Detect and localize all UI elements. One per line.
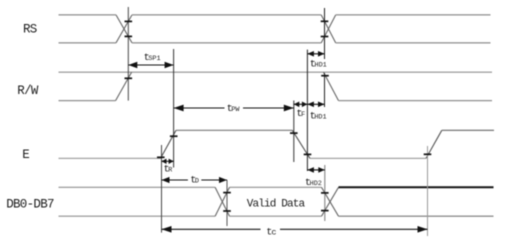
RS crossover 1 rising diagonal [116, 15, 132, 43]
tick RS crossover 2 lower [321, 36, 329, 38]
wire DB low rail left [59, 215, 216, 217]
svg-text:DB0-DB7: DB0-DB7 [6, 197, 54, 211]
arrow tHD1 lower [307, 102, 324, 108]
vertical reference line V5 [324, 8, 326, 107]
vertical reference line V3 [293, 101, 295, 163]
arrow tC [162, 226, 428, 233]
arrow tSP1 [128, 62, 173, 68]
tick R/W rising edge [125, 77, 133, 79]
arrow tF [294, 102, 308, 108]
tick DB crossover 2 upper [321, 192, 329, 194]
R/W rising edge diagonal [116, 72, 132, 100]
E rising edge diagonal [161, 130, 177, 158]
E second rising edge diagonal [426, 130, 442, 158]
vertical reference line V1 [127, 7, 129, 101]
wire DB low rail valid section [230, 215, 322, 217]
wire DB high rail left [59, 186, 216, 188]
wire E high rail right [442, 129, 494, 131]
DB crossover 2 falling diagonal [322, 187, 339, 216]
wire R/W high rail full [59, 71, 493, 73]
svg-text:tHD2: tHD2 [305, 178, 322, 189]
wire DB high rail valid section [230, 186, 322, 188]
arrow tD [162, 177, 228, 183]
svg-text:tD: tD [190, 175, 199, 186]
wire R/W low rail right [339, 100, 493, 102]
vertical reference line V7 [427, 146, 429, 236]
wire RS low rail right [336, 42, 491, 44]
RS crossover 1 falling diagonal [116, 15, 132, 43]
svg-text:tSP1: tSP1 [144, 53, 161, 64]
RS crossover 2 falling diagonal [321, 15, 336, 43]
arrow tHD1 upper [307, 51, 324, 57]
RS crossover 2 rising diagonal [321, 15, 336, 43]
tick E second rising at V7 [424, 153, 432, 155]
svg-text:RS: RS [23, 23, 37, 37]
wire RS high rail middle [132, 14, 321, 16]
tick E rising at V2 [170, 135, 178, 137]
DB crossover 1 rising diagonal [215, 187, 229, 216]
vertical reference line VT [161, 145, 163, 233]
wire RS high rail left [59, 14, 117, 16]
arrow tHD2 [307, 167, 324, 173]
wire E low rail left [59, 157, 161, 159]
E falling edge diagonal [292, 130, 310, 158]
svg-text:R/W: R/W [17, 84, 39, 98]
arrow tR [162, 159, 174, 164]
tick DB crossover 1 lower [223, 210, 231, 212]
svg-text:Valid Data: Valid Data [247, 199, 306, 211]
wire RS low rail middle [132, 42, 321, 44]
tick RS crossover 2 upper [321, 20, 329, 22]
svg-text:tHD1: tHD1 [310, 60, 327, 71]
svg-text:tF: tF [296, 109, 305, 120]
wire DB high rail right bold [339, 186, 494, 188]
R/W falling edge diagonal [324, 72, 339, 100]
tick E rising corner [157, 156, 165, 158]
vertical reference line V2 [173, 49, 175, 168]
vertical reference line V4 [306, 50, 308, 171]
wire RS high rail right [336, 14, 491, 16]
tick E falling at V3 [290, 132, 298, 134]
DB crossover 2 rising diagonal [322, 187, 339, 216]
tick RS crossover 1 lower [125, 35, 133, 37]
tick DB crossover 1 upper [223, 192, 231, 194]
wire E high rail [176, 129, 292, 131]
vertical reference line VD1 [226, 180, 228, 226]
svg-text:tHD1: tHD1 [310, 112, 327, 123]
wire E low rail middle [310, 157, 426, 159]
DB crossover 1 falling diagonal [215, 187, 229, 216]
svg-text:tR: tR [164, 165, 173, 176]
tick R/W falling edge [321, 75, 329, 77]
wire DB low rail right [339, 215, 494, 217]
wire R/W low rail left [59, 100, 116, 102]
wire RS low rail left [59, 42, 117, 44]
svg-text:tPW: tPW [227, 104, 241, 115]
svg-text:tc: tc [266, 227, 276, 238]
svg-text:E: E [22, 148, 30, 162]
vertical reference line V6 [324, 165, 326, 221]
tick DB crossover 2 lower [321, 210, 329, 212]
arrow tPW [128, 65, 293, 111]
tick RS crossover 1 upper [125, 20, 133, 22]
tick E falling at V4 [304, 153, 312, 155]
